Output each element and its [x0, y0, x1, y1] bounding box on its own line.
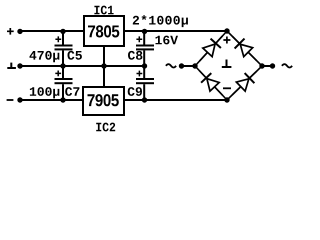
- value 2*1000u for C8 C9: [133, 15, 188, 27]
- wire top rail right: [124, 30, 227, 32]
- node bridge right vertex: [259, 63, 264, 68]
- IC U1 regulator 7805 box: [84, 16, 124, 46]
- IC U2 value 7905: [88, 94, 119, 106]
- value 16V for C8 C9: [156, 36, 179, 45]
- terminal - negative output: [7, 97, 23, 102]
- node regulator ground junction: [101, 63, 106, 68]
- wire bottom rail right: [123, 99, 227, 101]
- value 470u of C5: [30, 51, 60, 62]
- label - bridge negative: [223, 87, 231, 89]
- ground symbol left: [7, 63, 16, 69]
- designator C5: [68, 51, 82, 60]
- ground symbol bridge center: [222, 60, 232, 69]
- label + bridge positive: [223, 37, 230, 44]
- capacitor C8: [136, 31, 154, 66]
- IC U1 value 7805: [88, 25, 119, 37]
- node C5 top junction: [60, 29, 65, 34]
- wire 7905 ground pin: [103, 66, 105, 87]
- wire top rail left: [20, 30, 85, 32]
- capacitor C5: [55, 31, 73, 66]
- diode D2 upper-right: [228, 32, 262, 66]
- terminal + positive output: [7, 28, 23, 35]
- designator C8: [128, 51, 142, 60]
- node C9 bottom junction: [142, 97, 147, 102]
- wire left AC stub: [182, 65, 196, 67]
- node bridge bottom vertex: [224, 97, 229, 102]
- capacitor C9: [136, 66, 154, 100]
- diode D4 lower-right: [227, 66, 261, 100]
- node C8 C9 ground junction: [142, 63, 147, 68]
- designator C7: [65, 87, 79, 96]
- IC U2 regulator 7905 box: [83, 87, 124, 115]
- wire bridge edge left-bottom: [195, 66, 227, 100]
- node ground rail terminal: [17, 63, 22, 68]
- node C7 bottom junction: [60, 97, 65, 102]
- node C8 top junction: [142, 29, 147, 34]
- node bridge left vertex: [192, 63, 197, 68]
- designator IC2: [96, 123, 115, 132]
- wire bridge edge bottom-right: [227, 66, 262, 100]
- terminal ~ left AC input: [166, 63, 184, 68]
- designator C9: [128, 87, 142, 96]
- wire bridge edge left-top: [195, 31, 227, 66]
- wire right AC stub: [262, 65, 273, 67]
- diode D3 lower-left: [194, 66, 228, 100]
- terminal ~ right AC input: [270, 63, 292, 68]
- diode D1 upper-left: [194, 31, 227, 66]
- wire ground rail: [20, 65, 145, 67]
- wire bridge edge top-right: [227, 31, 262, 66]
- value 100u of C7: [30, 87, 60, 98]
- capacitor C7: [55, 66, 73, 100]
- wire 7805 ground pin: [103, 46, 105, 66]
- node C5 C7 ground junction: [60, 63, 65, 68]
- node bridge top vertex: [224, 28, 229, 33]
- wire bottom rail left: [20, 99, 83, 101]
- designator IC1: [94, 6, 113, 15]
